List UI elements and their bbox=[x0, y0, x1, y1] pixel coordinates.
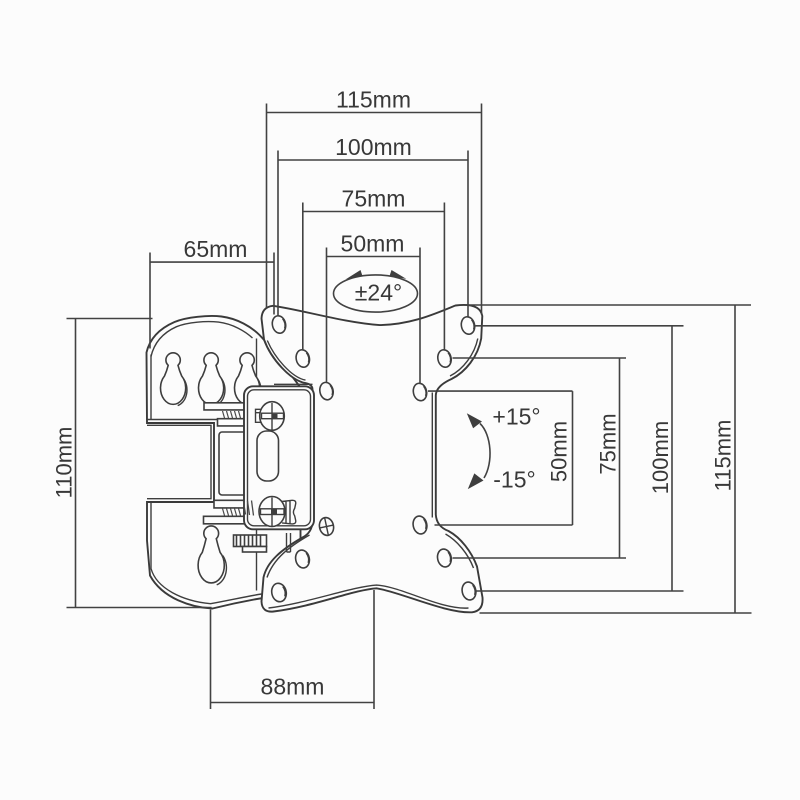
dim line 65mm bbox=[150, 261, 275, 263]
VESA hole bottom-left outer bbox=[270, 582, 288, 603]
VESA hole bottom-right inner bbox=[411, 515, 428, 535]
right connector 50 bottom bbox=[435, 524, 573, 526]
extension 100 right bbox=[467, 151, 469, 318]
svg-text:-15°: -15° bbox=[493, 467, 535, 493]
VESA plate inner edge right mid bbox=[431, 393, 433, 518]
dim line 100mm right vertical bbox=[671, 326, 673, 591]
svg-text:115mm: 115mm bbox=[711, 420, 736, 492]
right connector 75 top bbox=[453, 357, 627, 359]
screw top slot bbox=[262, 413, 284, 419]
VESA hole bottom-right mid bbox=[436, 548, 453, 568]
dim line 75mm right vertical bbox=[619, 358, 621, 558]
dim line 110mm vertical bbox=[75, 319, 77, 608]
extension 88 left bbox=[210, 610, 212, 710]
swivel arrowhead left bbox=[346, 270, 363, 279]
clamp top hatch bbox=[223, 411, 241, 418]
VESA hole bottom-left mid bbox=[294, 549, 311, 569]
VESA plate outline bbox=[262, 305, 483, 612]
hatched block below mechanism bbox=[234, 535, 267, 547]
tilt mechanism plate bbox=[244, 386, 314, 529]
keyhole bottom depth line bbox=[217, 556, 227, 585]
svg-text:±24°: ±24° bbox=[355, 280, 402, 306]
svg-text:100mm: 100mm bbox=[335, 134, 412, 160]
right connector 100 top bbox=[476, 325, 684, 327]
top rail line under lobe bbox=[274, 383, 313, 385]
VESA hole top-left outer bbox=[271, 315, 288, 335]
screw bottom slot bbox=[261, 509, 285, 515]
mechanism slot bbox=[257, 431, 279, 481]
right connector 100 bottom bbox=[477, 590, 684, 592]
wall plate inner bottom recess bbox=[151, 503, 262, 604]
clamp tab below mechanism bbox=[287, 533, 291, 552]
VESA hole top-left mid bbox=[295, 349, 312, 369]
dim line 100mm top bbox=[278, 159, 468, 161]
clamp bar top upper bbox=[204, 403, 245, 410]
VESA plate inner edge top-left diagonal bbox=[267, 341, 305, 381]
extension 75 left bbox=[302, 203, 304, 351]
dim line 115mm top bbox=[267, 112, 482, 114]
extension 115 right bbox=[481, 104, 483, 315]
svg-text:100mm: 100mm bbox=[648, 421, 673, 494]
screw head top bbox=[260, 402, 285, 431]
keyhole slot 3 bbox=[234, 353, 259, 405]
svg-text:+15°: +15° bbox=[492, 404, 540, 430]
extension 88 right bbox=[373, 590, 375, 709]
screw bottom cross vertical bbox=[271, 498, 273, 528]
wall plate bottom recess right edge bbox=[256, 505, 258, 591]
tilt mechanism inner edge bbox=[248, 390, 311, 526]
keyhole slot 2 depth line bbox=[216, 379, 225, 406]
tick 110 bottom bbox=[67, 607, 212, 609]
svg-text:110mm: 110mm bbox=[52, 427, 77, 499]
VESA plate inner edge top-right diagonal bbox=[450, 339, 478, 377]
extension 65 left bbox=[149, 253, 151, 349]
keyhole slot 1 depth line bbox=[178, 379, 187, 406]
right connector 50 top bbox=[428, 390, 573, 392]
swivel arrowhead right bbox=[390, 270, 407, 279]
hatched block lower bbox=[243, 547, 267, 553]
screw bottom slot dark bbox=[271, 510, 277, 515]
right connector 115 bottom bbox=[480, 612, 752, 614]
tick 110 top bbox=[67, 318, 153, 320]
VESA hole top-right mid bbox=[436, 349, 453, 369]
tilt arrowhead up bbox=[467, 413, 482, 428]
clamp bar bottom upper bbox=[214, 500, 245, 508]
top screw shaft stub bbox=[256, 409, 263, 422]
keyhole slot 1 bbox=[160, 353, 185, 405]
swivel ellipse ±24° bbox=[334, 275, 418, 312]
svg-text:75mm: 75mm bbox=[342, 186, 406, 212]
wall plate inner left edge top bbox=[150, 355, 152, 420]
clamp bottom hatch bbox=[223, 509, 241, 516]
dim line 88mm bottom bbox=[211, 702, 375, 704]
right connector 115 top bbox=[465, 304, 752, 306]
wall plate inner recess top-right edge bbox=[148, 339, 257, 420]
extension 65 right bbox=[273, 253, 275, 315]
svg-text:65mm: 65mm bbox=[184, 236, 248, 262]
keyhole slot 2 bbox=[199, 353, 224, 405]
clamp bar bottom lower bbox=[204, 516, 245, 524]
screw top slot dark bbox=[272, 414, 278, 418]
wall plate outline bbox=[147, 316, 301, 608]
VESA hole bottom-right outer bbox=[460, 581, 477, 601]
dim line 50mm right vertical bbox=[572, 391, 574, 525]
wall plate inner arch line bbox=[151, 322, 253, 357]
right connector 75 bottom bbox=[453, 557, 627, 559]
bottom screw shaft hatch bbox=[244, 501, 254, 516]
VESA hole top-right inner bbox=[412, 382, 429, 402]
dim line 50mm top bbox=[326, 256, 420, 258]
wall plate notch inner lines bbox=[147, 425, 211, 498]
extension 50 left bbox=[326, 248, 328, 383]
keyhole slot bottom bbox=[198, 526, 224, 583]
keyhole slot 3 depth line bbox=[252, 379, 261, 406]
extension 100 left bbox=[277, 151, 279, 317]
extension 75 right bbox=[443, 203, 445, 351]
dim line 75mm top bbox=[303, 211, 445, 213]
VESA hole top-left inner bbox=[318, 381, 335, 401]
tilt arm bracket behind mechanism bbox=[219, 432, 254, 495]
svg-text:50mm: 50mm bbox=[341, 231, 405, 257]
tilt arc bbox=[480, 424, 490, 479]
svg-text:115mm: 115mm bbox=[336, 87, 411, 113]
dim line 115mm right vertical bbox=[734, 305, 736, 613]
extension 115 left bbox=[266, 104, 268, 309]
VESA hole top-right outer bbox=[460, 316, 477, 336]
svg-text:88mm: 88mm bbox=[261, 674, 325, 700]
extension 50 right bbox=[419, 248, 421, 384]
clamp bar top lower bbox=[218, 419, 246, 426]
knurled spool bbox=[282, 500, 296, 524]
screw head bottom bbox=[259, 497, 285, 527]
tilt arrowhead down bbox=[468, 473, 484, 489]
VESA plate inner bottom edge bbox=[269, 585, 469, 608]
VESA screw bottom-left inner bbox=[318, 516, 335, 537]
screw top cross vertical bbox=[271, 403, 273, 430]
svg-text:50mm: 50mm bbox=[547, 421, 572, 482]
VESA plate inner edge bottom-left bbox=[267, 535, 310, 578]
svg-text:75mm: 75mm bbox=[596, 413, 621, 474]
VESA plate inner edge bottom-right bbox=[446, 534, 474, 568]
